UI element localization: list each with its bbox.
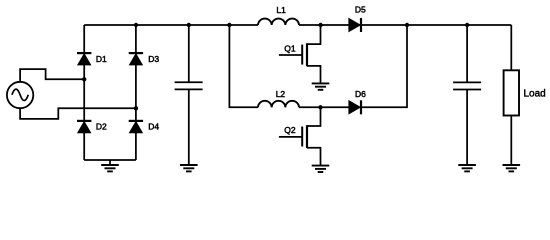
- transistor Q1: [279, 25, 321, 83]
- AC source V1: [7, 82, 33, 108]
- wire AC bottom terminal to bridge right leg: [20, 108, 136, 119]
- svg-text:L2: L2: [276, 89, 286, 99]
- node dot C1 / top rail: [187, 23, 191, 27]
- node dot AC bottom / bridge right leg: [134, 106, 138, 110]
- inductor L2: [258, 101, 299, 107]
- capacitor C2: [453, 25, 481, 165]
- svg-text:Q1: Q1: [284, 44, 296, 54]
- svg-text:Q2: Q2: [284, 125, 296, 135]
- ground Q1: [312, 83, 330, 89]
- svg-text:Load: Load: [524, 89, 546, 100]
- node dot L2 branch / top rail: [227, 23, 231, 27]
- svg-text:D1: D1: [96, 54, 107, 64]
- svg-text:D2: D2: [96, 122, 107, 132]
- node dot Q1 drain / top rail: [318, 23, 322, 27]
- node dot D6 riser / top rail: [405, 23, 409, 27]
- node dot Q2 drain / L2 line: [318, 105, 322, 109]
- inductor L1: [258, 19, 299, 25]
- wire D6 output riser to top rail: [361, 25, 407, 107]
- node dot bridge right leg / top rail: [134, 23, 138, 27]
- ground C2: [458, 165, 476, 171]
- svg-text:D6: D6: [355, 89, 366, 99]
- ground Q2: [312, 166, 330, 172]
- ground C1: [180, 165, 198, 171]
- svg-text:D5: D5: [355, 5, 366, 15]
- svg-text:D3: D3: [148, 54, 159, 64]
- wire bridge bottom rail: [84, 159, 136, 161]
- node dot AC top / bridge left leg: [82, 77, 86, 81]
- diode D4: [129, 121, 143, 133]
- diode D1: [77, 53, 91, 65]
- wire AC top terminal to bridge left leg: [20, 69, 84, 82]
- capacitor C1: [175, 25, 203, 165]
- svg-text:L1: L1: [276, 5, 286, 15]
- label Load: [524, 89, 546, 100]
- ground bridge: [101, 160, 119, 171]
- svg-text:D4: D4: [148, 122, 159, 132]
- wire branch riser to L2: [229, 25, 258, 107]
- ground Load: [503, 165, 521, 171]
- diode D6: [349, 100, 361, 114]
- wire top rail left of L1: [84, 24, 258, 26]
- wire bridge left leg: [83, 25, 85, 160]
- node dot C2 / top rail: [465, 23, 469, 27]
- wire L2 to D6: [299, 106, 349, 108]
- wire bridge right leg: [135, 25, 137, 160]
- diode D3: [129, 53, 143, 65]
- resistor Load: [504, 25, 519, 165]
- transistor Q2: [279, 107, 321, 165]
- wire top rail right of L1: [299, 24, 511, 26]
- diode D2: [77, 121, 91, 133]
- diode D5: [349, 18, 361, 32]
